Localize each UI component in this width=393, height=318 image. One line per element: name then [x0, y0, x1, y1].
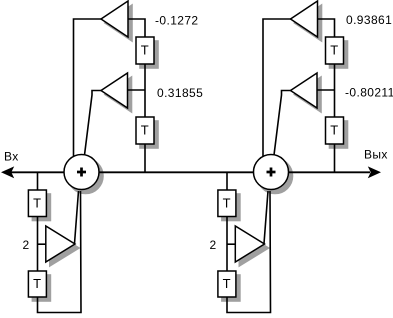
svg-text:Вх: Вх	[4, 150, 19, 164]
svg-text:Вых: Вых	[364, 148, 388, 162]
svg-text:2: 2	[210, 238, 217, 252]
svg-text:2: 2	[23, 238, 30, 252]
svg-text:-0.1272: -0.1272	[155, 14, 199, 28]
svg-text:0.31855: 0.31855	[157, 86, 203, 100]
svg-text:0.93861: 0.93861	[346, 13, 392, 27]
svg-text:-0.80211: -0.80211	[345, 86, 393, 100]
